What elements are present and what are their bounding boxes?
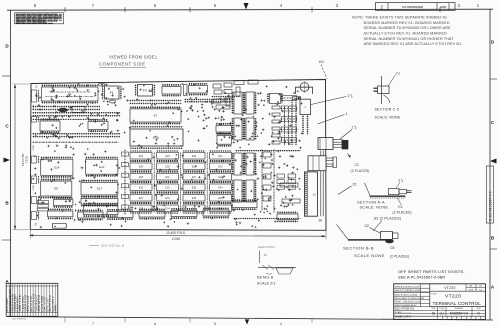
svg-text:2: 2 [35, 223, 37, 227]
svg-text:DETAIL B: DETAIL B [257, 276, 274, 280]
svg-text:TERMINAL CONTROL: TERMINAL CONTROL [433, 301, 482, 306]
svg-text:VT220: VT220 [445, 293, 461, 299]
svg-text:PROD. J.WILSON 2-22-83: PROD. J.WILSON 2-22-83 [395, 302, 422, 304]
svg-text:E33: E33 [165, 197, 170, 200]
svg-text:APPR T.L. 4-83: APPR T.L. 4-83 [19, 294, 22, 312]
IC E42 [233, 180, 244, 202]
svg-text:SCALE: NONE: SCALE: NONE [360, 206, 389, 210]
svg-text:F1: F1 [110, 91, 114, 95]
svg-text:E24: E24 [139, 166, 144, 169]
svg-text:DATE 2-10-83: DATE 2-10-83 [27, 295, 30, 311]
IC E4 [188, 84, 207, 95]
svg-text:APPR: APPR [55, 305, 58, 312]
left edge micro labels [33, 104, 35, 190]
component cluster top middle-right [211, 80, 258, 106]
item 101 leader [319, 60, 328, 79]
IC E10 [88, 120, 108, 131]
top zone numbers [34, 3, 480, 12]
svg-text:SECTION C-C: SECTION C-C [375, 108, 400, 112]
svg-text:SERIAL NUMBER TA WY80400 OR LO: SERIAL NUMBER TA WY80400 OR LOWER ARE [364, 26, 452, 30]
section A-A caption [357, 198, 412, 214]
revision history table [6, 283, 58, 316]
capacitor column C10-C15 [235, 96, 300, 151]
off sheet parts note [398, 269, 465, 280]
svg-text:DK: DK [479, 286, 483, 288]
svg-text:J2: J2 [313, 193, 317, 197]
svg-text:PROJ. ENG. T.LONG 2-15-83: PROJ. ENG. T.LONG 2-15-83 [395, 298, 425, 300]
svg-text:4: 4 [280, 322, 282, 326]
svg-text:A ECO 0141-R1: A ECO 0141-R1 [12, 293, 15, 311]
via columns [262, 99, 296, 212]
svg-text:SECTION A-A: SECTION A-A [357, 200, 385, 204]
svg-text:C: C [477, 311, 480, 316]
svg-text:LU: LU [440, 311, 445, 315]
svg-text:E1: E1 [68, 92, 72, 96]
svg-text:NOTE: THERE EXISTS TWO SEPARA: NOTE: THERE EXISTS TWO SEPARATE 50MAN2-0… [352, 15, 447, 19]
item 22 leader upper [338, 183, 357, 195]
item 2 leader connector [340, 126, 356, 140]
IC E19 [81, 197, 118, 206]
board edge double line right [321, 151, 323, 217]
svg-text:E12: E12 [99, 165, 105, 169]
svg-text:E26: E26 [139, 187, 144, 190]
IC E13 [40, 119, 60, 132]
svg-text:ECO 0141-0012: ECO 0141-0012 [34, 293, 36, 312]
IC E52 [139, 209, 165, 218]
resistor array rows left [32, 107, 120, 116]
resistor strip row 2 middle [129, 100, 230, 104]
svg-text:D CS 5416567 0-0: D CS 5416567 0-0 [489, 191, 493, 221]
svg-text:7: 7 [92, 322, 94, 326]
right zone letters [490, 40, 497, 290]
svg-text:1E01: 1E01 [25, 155, 29, 163]
svg-text:SCALE 2/1: SCALE 2/1 [257, 282, 276, 286]
svg-text:0-0-76591#S|S0|0: 0-0-76591#S|S0|0 [402, 5, 424, 9]
svg-text:OFF SHEET PARTS LIST EXISTS.: OFF SHEET PARTS LIST EXISTS. [398, 269, 465, 274]
svg-text:SERIAL NUMBER TA WY60401 OR HI: SERIAL NUMBER TA WY60401 OR HIGHER THAT [364, 37, 455, 41]
svg-text:REVISIONS: REVISIONS [7, 298, 9, 312]
left edge terminals [32, 90, 39, 220]
svg-text:E: E [36, 85, 38, 89]
svg-text:REV A1 X1 B1: REV A1 X1 B1 [30, 295, 33, 312]
jumper bars right-bottom [280, 183, 300, 203]
detail B caption [257, 276, 276, 286]
see detail note [89, 244, 124, 248]
fuse F2 [136, 84, 155, 96]
title block right side [430, 284, 486, 316]
IC E18 [53, 198, 73, 207]
svg-text:NUMBER: NUMBER [455, 308, 464, 310]
svg-text:E17: E17 [97, 187, 103, 191]
svg-text:C1: C1 [396, 72, 400, 76]
IC E31 [245, 92, 256, 114]
connector J4 video [308, 156, 337, 171]
svg-text:22: 22 [365, 223, 370, 228]
svg-text:D ECO 09944: D ECO 09944 [42, 295, 44, 311]
fuse F1 [103, 86, 121, 100]
svg-text:F2: F2 [143, 88, 147, 92]
svg-text:CODE: CODE [439, 308, 445, 310]
svg-text:E38: E38 [192, 187, 197, 190]
svg-text:E6: E6 [54, 187, 58, 191]
IC E30 [233, 92, 244, 114]
svg-text:101: 101 [319, 60, 325, 64]
IC E25 [217, 134, 232, 146]
svg-text:400R: 400R [33, 184, 35, 190]
svg-text:E23: E23 [139, 155, 144, 158]
resistor pack cluster RP1 [37, 201, 49, 211]
svg-text:CHK TC 9-83: CHK TC 9-83 [45, 296, 47, 311]
IC E54 [203, 208, 229, 217]
capacitor ovals near F1 [98, 83, 115, 103]
svg-text:(2 PLACES): (2 PLACES) [351, 169, 370, 173]
svg-text:B: B [432, 311, 435, 316]
svg-text:APPR JW 8-83: APPR JW 8-83 [38, 294, 41, 311]
svg-text:5: 5 [214, 322, 216, 326]
detail B view [258, 245, 296, 274]
bottom pin strip right [234, 218, 300, 220]
bottom fold arrow [245, 319, 249, 324]
svg-text:2: 2 [398, 179, 400, 183]
connector J2 edge [305, 172, 318, 216]
svg-text:E14: E14 [54, 165, 60, 169]
bottom width dimension [29, 230, 326, 242]
IC E7 [130, 107, 181, 123]
IC E12 [86, 158, 119, 176]
left zone letters [2, 44, 11, 285]
proprietary note box [15, 13, 64, 25]
svg-text:(2 PLACES): (2 PLACES) [393, 210, 412, 214]
RAM array E23-E46 [130, 151, 232, 213]
svg-text:E25: E25 [139, 176, 144, 179]
svg-text:SCALE: NONE: SCALE: NONE [375, 115, 401, 119]
svg-text:C8: C8 [390, 246, 394, 250]
IC E51 [107, 210, 133, 219]
left board dimension [13, 84, 31, 230]
svg-text:400R: 400R [33, 144, 35, 150]
IC E47 [232, 200, 257, 209]
svg-text:E41: E41 [218, 155, 223, 158]
transistor pair Q1 Q2 [277, 174, 296, 189]
svg-text:C ECO 08112: C ECO 08112 [23, 296, 25, 312]
svg-text:2: 2 [348, 94, 350, 98]
svg-text:DRN. A.J.WONG 2-10-83: DRN. A.J.WONG 2-10-83 [395, 285, 421, 288]
svg-text:62 (2 PLACES): 62 (2 PLACES) [374, 216, 401, 220]
svg-text:ENG. R.GUZY 2-15-83: ENG. R.GUZY 2-15-83 [395, 294, 418, 296]
right edge vertical drawing number [486, 166, 493, 223]
svg-text:E29: E29 [165, 155, 170, 158]
section B-B view [337, 225, 399, 244]
svg-text:2: 2 [352, 126, 354, 130]
via and test point scatter [32, 83, 303, 228]
IC E33 [233, 118, 244, 140]
IC E53 [171, 209, 197, 218]
right fold arrow [490, 159, 497, 164]
small parts column x215 [213, 98, 232, 109]
mounting hole H1 [299, 81, 310, 92]
svg-text:E7: E7 [154, 114, 158, 118]
svg-text:5416567-0-0: 5416567-0-0 [450, 312, 468, 316]
scatter inside E1 [45, 92, 94, 97]
crystal Y1 [184, 85, 188, 96]
svg-text:16: 16 [264, 253, 268, 257]
svg-text:VT220: VT220 [444, 286, 456, 290]
svg-text:4#0B: 4#0B [440, 5, 446, 9]
IC E14 [41, 158, 73, 177]
svg-text:2.020: 2.020 [172, 237, 180, 241]
svg-text:1: 1 [346, 112, 348, 116]
svg-text:22: 22 [353, 183, 357, 187]
EPROM E16 [130, 127, 183, 148]
svg-text:SCALE ————: SCALE ———— [395, 311, 412, 314]
diode D1 with polarity mark [293, 97, 302, 100]
svg-text:CHK'D T.CURTIN 2-14-83: CHK'D T.CURTIN 2-14-83 [395, 290, 421, 292]
svg-text:6: 6 [154, 322, 156, 326]
svg-text:E30: E30 [165, 166, 170, 169]
svg-text:SCALE NONE: SCALE NONE [354, 253, 385, 258]
etch number vertical text [21, 153, 28, 166]
inductor L1 [58, 108, 68, 112]
IC E27 [268, 93, 282, 103]
IC E40 [233, 153, 244, 175]
section C-C view [374, 72, 401, 105]
IC E3 [162, 85, 181, 96]
svg-text:E31: E31 [165, 176, 170, 179]
svg-text:(2 PLACES): (2 PLACES) [390, 254, 409, 258]
left fold arrow [4, 158, 11, 163]
svg-text:DATE 11-83: DATE 11-83 [46, 298, 49, 312]
view annotation [99, 55, 158, 68]
connector J3 power [318, 138, 348, 150]
svg-text:DEC FORM NO: DEC FORM NO [12, 319, 27, 321]
svg-text:SHEET 1 OF 2: SHEET 1 OF 2 [395, 315, 412, 318]
bottom zone numbers [65, 317, 312, 326]
mounting bracket top right [296, 87, 313, 94]
board label plate [52, 223, 66, 228]
svg-text:CHK R.G. 6-83: CHK R.G. 6-83 [26, 294, 28, 311]
top fold arrow [244, 3, 249, 10]
discrete column x122 [122, 149, 129, 214]
svg-text:SEE A-PL-5416567-0-0BR: SEE A-PL-5416567-0-0BR [398, 276, 445, 280]
svg-text:E37: E37 [192, 176, 197, 179]
svg-text:26: 26 [319, 219, 323, 223]
svg-text:ACTUALLY ETCH REV X1. BOARDS: ACTUALLY ETCH REV X1. BOARDS MARKED [364, 31, 448, 35]
svg-text:50C-VT220-0-0: 50C-VT220-0-0 [395, 307, 415, 311]
svg-text:E44: E44 [218, 187, 223, 190]
svg-text:CHG 54165 67: CHG 54165 67 [36, 294, 38, 311]
IC E6 [41, 180, 72, 198]
svg-text:C3: C3 [398, 205, 402, 209]
top-right drawing number strip [376, 3, 456, 11]
IC E34 [245, 118, 256, 140]
IC E1 [41, 85, 98, 102]
svg-text:ARE MARKED REV X1 ARE ACTUALLY: ARE MARKED REV X1 ARE ACTUALLY ETCH REV … [364, 42, 463, 46]
item 62 callout [373, 216, 401, 231]
IC E22 [216, 124, 232, 134]
resistor rows under E13 [32, 119, 120, 142]
IC E21 [83, 204, 118, 216]
svg-text:REV DESCRIPTION: REV DESCRIPTION [10, 289, 12, 312]
svg-text:SEE DETAIL B: SEE DETAIL B [101, 244, 124, 248]
note text block [352, 15, 462, 46]
svg-text:E27: E27 [139, 197, 144, 200]
IC E55 [277, 212, 298, 221]
IC E8 [72, 107, 85, 113]
IC E41 [245, 153, 256, 175]
svg-text:VIEWED FROM SIDE1: VIEWED FROM SIDE1 [109, 55, 158, 60]
IC E50 [77, 210, 103, 219]
svg-text:LEAD N PLCS: LEAD N PLCS [258, 245, 275, 249]
svg-text:E42: E42 [218, 166, 223, 169]
title block [394, 284, 486, 320]
item 22 leader lower [365, 223, 382, 234]
sheet squares strip [438, 316, 481, 319]
svg-text:E35: E35 [192, 155, 197, 158]
svg-text:10.400 F.B.S.: 10.400 F.B.S. [166, 231, 186, 235]
board outline (module 5416567) [30, 80, 326, 231]
svg-text:COMPONENT SIDE: COMPONENT SIDE [99, 62, 145, 67]
svg-text:C2: C2 [355, 163, 359, 167]
relay K1 [300, 99, 311, 134]
svg-text:REV B1 ETCH: REV B1 ETCH [50, 295, 52, 311]
capacitor column lower [263, 152, 271, 201]
item 1 leader [318, 112, 348, 124]
capacitor C2 callout [348, 153, 370, 173]
IC E17 [81, 181, 118, 197]
IC E20 [48, 209, 74, 218]
svg-text:E39: E39 [192, 197, 197, 200]
IC E43 [245, 180, 256, 202]
svg-text:E34: E34 [165, 208, 170, 211]
svg-text:TITLE: TITLE [431, 293, 437, 295]
svg-text:BOARDS MARKED REV X1. BOARDS M: BOARDS MARKED REV X1. BOARDS MARKED [364, 21, 450, 25]
section A-A view [365, 179, 412, 199]
item 2 leader [311, 94, 352, 105]
section B-B caption [343, 245, 409, 258]
section C-C caption [375, 108, 401, 120]
svg-text:E32: E32 [165, 187, 170, 190]
svg-text:SECTION B-B: SECTION B-B [343, 245, 374, 250]
